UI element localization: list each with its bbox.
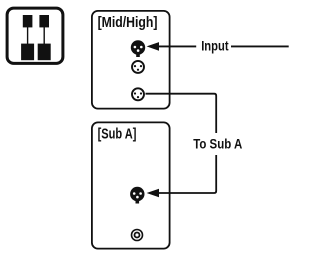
svg-text:To Sub A: To Sub A <box>193 137 242 152</box>
svg-text:[Mid/High]: [Mid/High] <box>98 14 158 30</box>
svg-text:Input: Input <box>201 39 228 54</box>
svg-text:[Sub A]: [Sub A] <box>98 125 137 142</box>
